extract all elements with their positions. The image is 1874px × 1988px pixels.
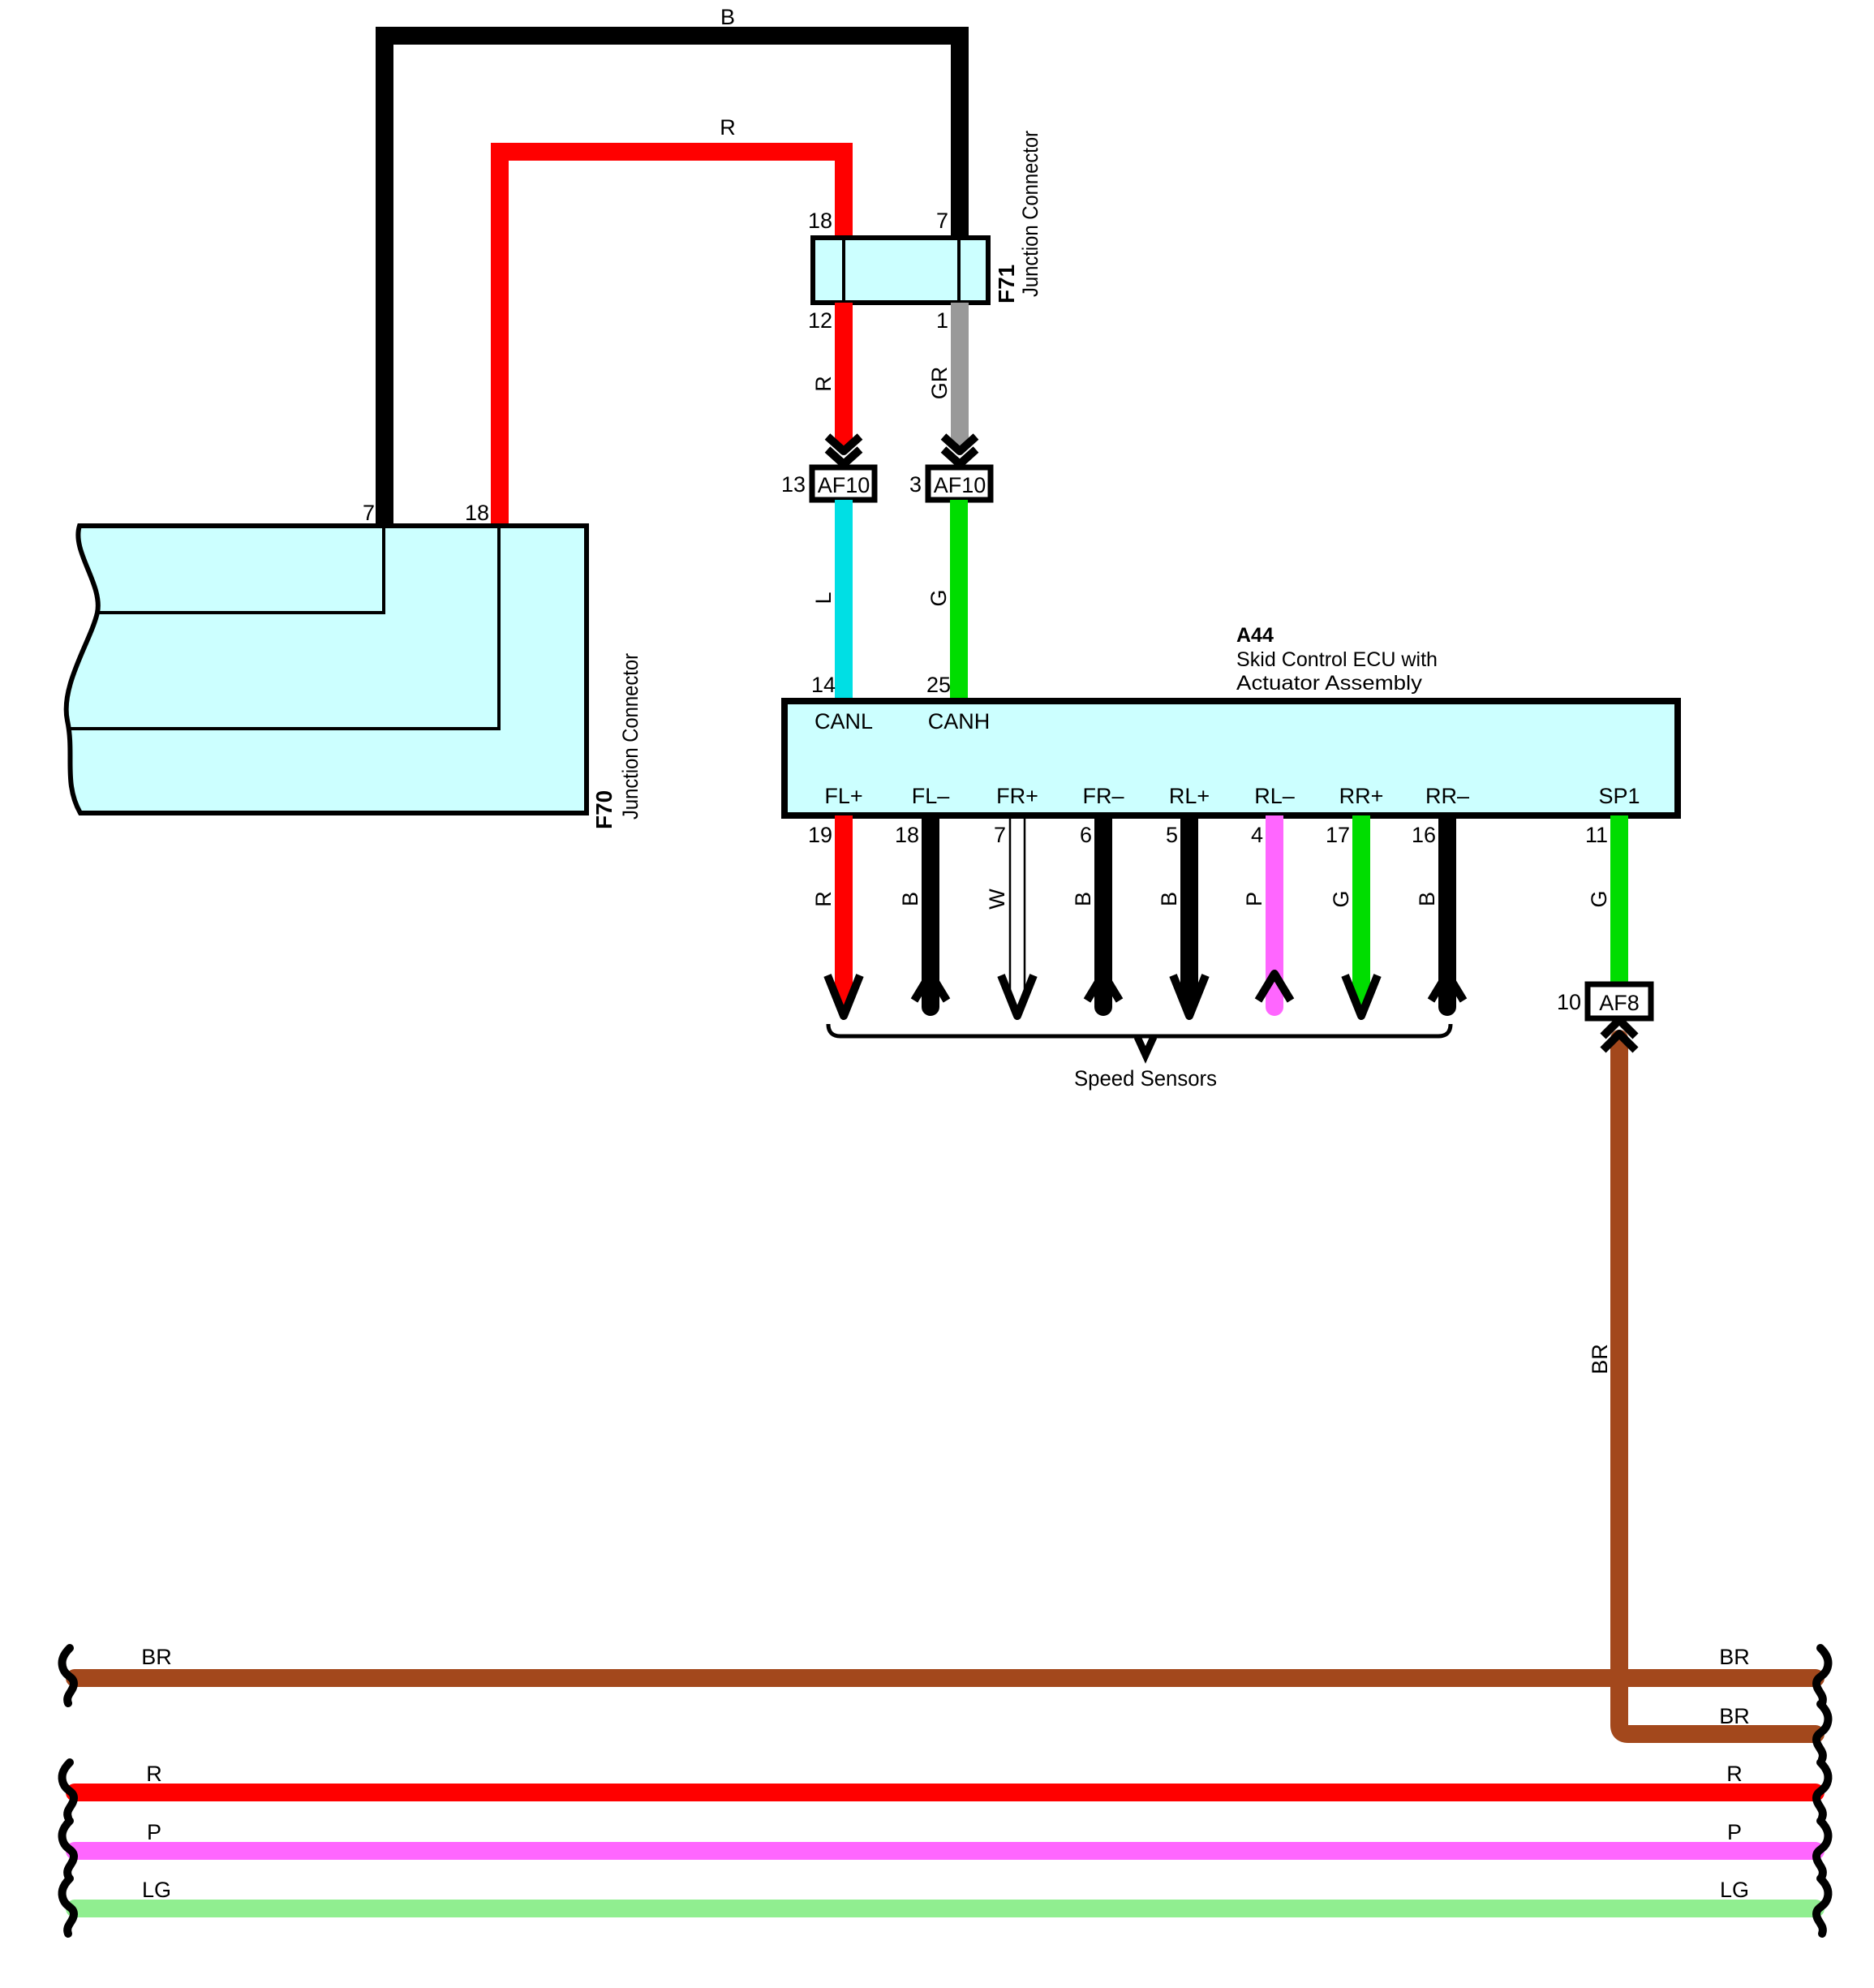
connector AF10 (right) <box>928 467 991 500</box>
svg-text:1: 1 <box>936 308 948 333</box>
svg-text:13: 13 <box>781 472 806 497</box>
connector AF10 (left) <box>812 467 875 500</box>
svg-text:7: 7 <box>363 501 375 525</box>
wire R (red) horizontal <box>75 1784 1816 1801</box>
svg-text:LG: LG <box>1720 1878 1749 1902</box>
svg-text:FR–: FR– <box>1082 784 1124 808</box>
wire R (red) F71 pin 12 down to AF10 <box>835 303 853 448</box>
svg-text:RR–: RR– <box>1425 784 1469 808</box>
svg-text:19: 19 <box>808 823 832 847</box>
svg-text:14: 14 <box>811 673 836 697</box>
wire P (pink) horizontal <box>75 1842 1816 1860</box>
svg-text:12: 12 <box>808 308 832 333</box>
wire G (green) AF10 down to ECU pin 25 <box>950 500 968 701</box>
svg-text:RL+: RL+ <box>1169 784 1210 808</box>
wire B (black) FL- from speed sensor <box>914 815 947 1016</box>
svg-text:6: 6 <box>1080 823 1092 847</box>
svg-text:CANH: CANH <box>928 709 991 734</box>
svg-text:B: B <box>1415 892 1439 906</box>
svg-text:25: 25 <box>926 673 951 697</box>
svg-text:R: R <box>1726 1762 1743 1786</box>
arrow into AF10 (left) <box>827 437 860 464</box>
wire BR (brown) from AF8 down and right to body harness <box>1619 1039 1816 1734</box>
wire R (red) FL+ to speed sensor <box>827 815 860 1016</box>
wire G (green) RR+ to speed sensor <box>1345 815 1378 1016</box>
svg-text:W: W <box>985 889 1009 910</box>
svg-text:R: R <box>720 115 736 140</box>
svg-text:Speed Sensors: Speed Sensors <box>1074 1066 1217 1091</box>
svg-text:A44: A44 <box>1236 624 1274 647</box>
svg-text:G: G <box>1587 890 1611 907</box>
svg-text:FR+: FR+ <box>996 784 1038 808</box>
svg-text:CANL: CANL <box>815 709 873 734</box>
svg-text:GR: GR <box>927 367 952 400</box>
svg-text:P: P <box>1727 1820 1742 1844</box>
svg-text:17: 17 <box>1326 823 1350 847</box>
svg-text:5: 5 <box>1166 823 1178 847</box>
skid control ECU A44 box <box>784 701 1678 815</box>
wire GR (gray) F71 pin 1 down to AF10 <box>951 303 969 448</box>
svg-text:F71: F71 <box>994 265 1019 303</box>
svg-text:P: P <box>1242 892 1266 906</box>
break squiggle R right <box>1816 1762 1828 1818</box>
svg-text:RR+: RR+ <box>1339 784 1384 808</box>
break squiggle LG right <box>1816 1878 1828 1934</box>
break squiggle P right <box>1816 1821 1828 1876</box>
svg-text:G: G <box>1329 890 1353 907</box>
svg-text:R: R <box>146 1762 162 1786</box>
svg-text:4: 4 <box>1251 823 1263 847</box>
break squiggle BR right (lower) <box>1816 1704 1828 1759</box>
svg-text:F70: F70 <box>591 790 617 829</box>
svg-text:BR: BR <box>1588 1344 1612 1375</box>
svg-text:7: 7 <box>994 823 1006 847</box>
svg-text:B: B <box>1157 892 1181 906</box>
svg-text:16: 16 <box>1412 823 1436 847</box>
svg-text:AF10: AF10 <box>818 473 870 497</box>
svg-text:RL–: RL– <box>1254 784 1295 808</box>
connector AF8 <box>1588 984 1651 1018</box>
break squiggle LG left <box>62 1878 74 1934</box>
svg-text:10: 10 <box>1557 990 1581 1014</box>
svg-text:18: 18 <box>895 823 919 847</box>
svg-text:BR: BR <box>1719 1704 1750 1728</box>
wire R (red) from F70 pin 18 up and over to F71 pin 18 <box>500 152 844 526</box>
svg-text:FL+: FL+ <box>824 784 862 808</box>
brace speed sensors <box>828 1024 1451 1055</box>
svg-text:B: B <box>898 892 922 906</box>
svg-text:AF10: AF10 <box>934 473 986 497</box>
svg-text:G: G <box>926 589 951 606</box>
svg-text:FL–: FL– <box>912 784 950 808</box>
svg-text:18: 18 <box>808 209 832 233</box>
wire B (black) from F70 pin 7 up and over to F71 pin 7 <box>385 36 960 526</box>
wire W (white) FR+ to speed sensor <box>1001 815 1034 1016</box>
svg-text:18: 18 <box>465 501 489 525</box>
svg-text:Junction Connector: Junction Connector <box>618 653 643 820</box>
svg-text:BR: BR <box>1719 1645 1750 1669</box>
svg-text:B: B <box>720 5 735 29</box>
wire G (green) SP1 down to AF8 <box>1610 815 1628 984</box>
junction connector F70 <box>67 526 587 813</box>
wire B (black) RL+ to speed sensor <box>1173 815 1206 1016</box>
svg-text:Junction Connector: Junction Connector <box>1018 131 1042 297</box>
svg-text:R: R <box>811 376 836 392</box>
break squiggle BR right (top) <box>1816 1648 1828 1703</box>
svg-text:11: 11 <box>1585 823 1608 847</box>
wire B (black) RR- from speed sensor <box>1431 815 1464 1016</box>
svg-text:B: B <box>1071 892 1095 906</box>
break squiggle P left <box>62 1821 74 1876</box>
break squiggle R left <box>62 1762 74 1818</box>
svg-text:LG: LG <box>142 1878 171 1902</box>
arrow out of AF8 (up) <box>1603 1020 1635 1050</box>
svg-text:SP1: SP1 <box>1598 784 1640 808</box>
arrow into AF10 (right) <box>943 437 976 464</box>
svg-text:7: 7 <box>936 209 948 233</box>
svg-text:3: 3 <box>909 472 922 497</box>
svg-text:R: R <box>811 891 836 907</box>
break squiggle BR left <box>62 1648 74 1703</box>
svg-text:P: P <box>147 1820 161 1844</box>
wire BR (brown) horizontal <box>75 1669 1816 1687</box>
wire LG (light green) horizontal <box>75 1900 1816 1917</box>
svg-text:Skid Control ECU with: Skid Control ECU with <box>1236 648 1438 671</box>
wire B (black) FR- from speed sensor <box>1087 815 1120 1016</box>
svg-text:Actuator Assembly: Actuator Assembly <box>1236 672 1423 695</box>
junction connector F71 <box>813 238 988 303</box>
svg-text:L: L <box>811 592 836 604</box>
wire P (pink) RL- from speed sensor <box>1258 815 1291 1016</box>
wire L (cyan) AF10 down to ECU pin 14 <box>835 500 853 701</box>
svg-text:AF8: AF8 <box>1599 991 1640 1015</box>
svg-text:BR: BR <box>141 1645 172 1669</box>
